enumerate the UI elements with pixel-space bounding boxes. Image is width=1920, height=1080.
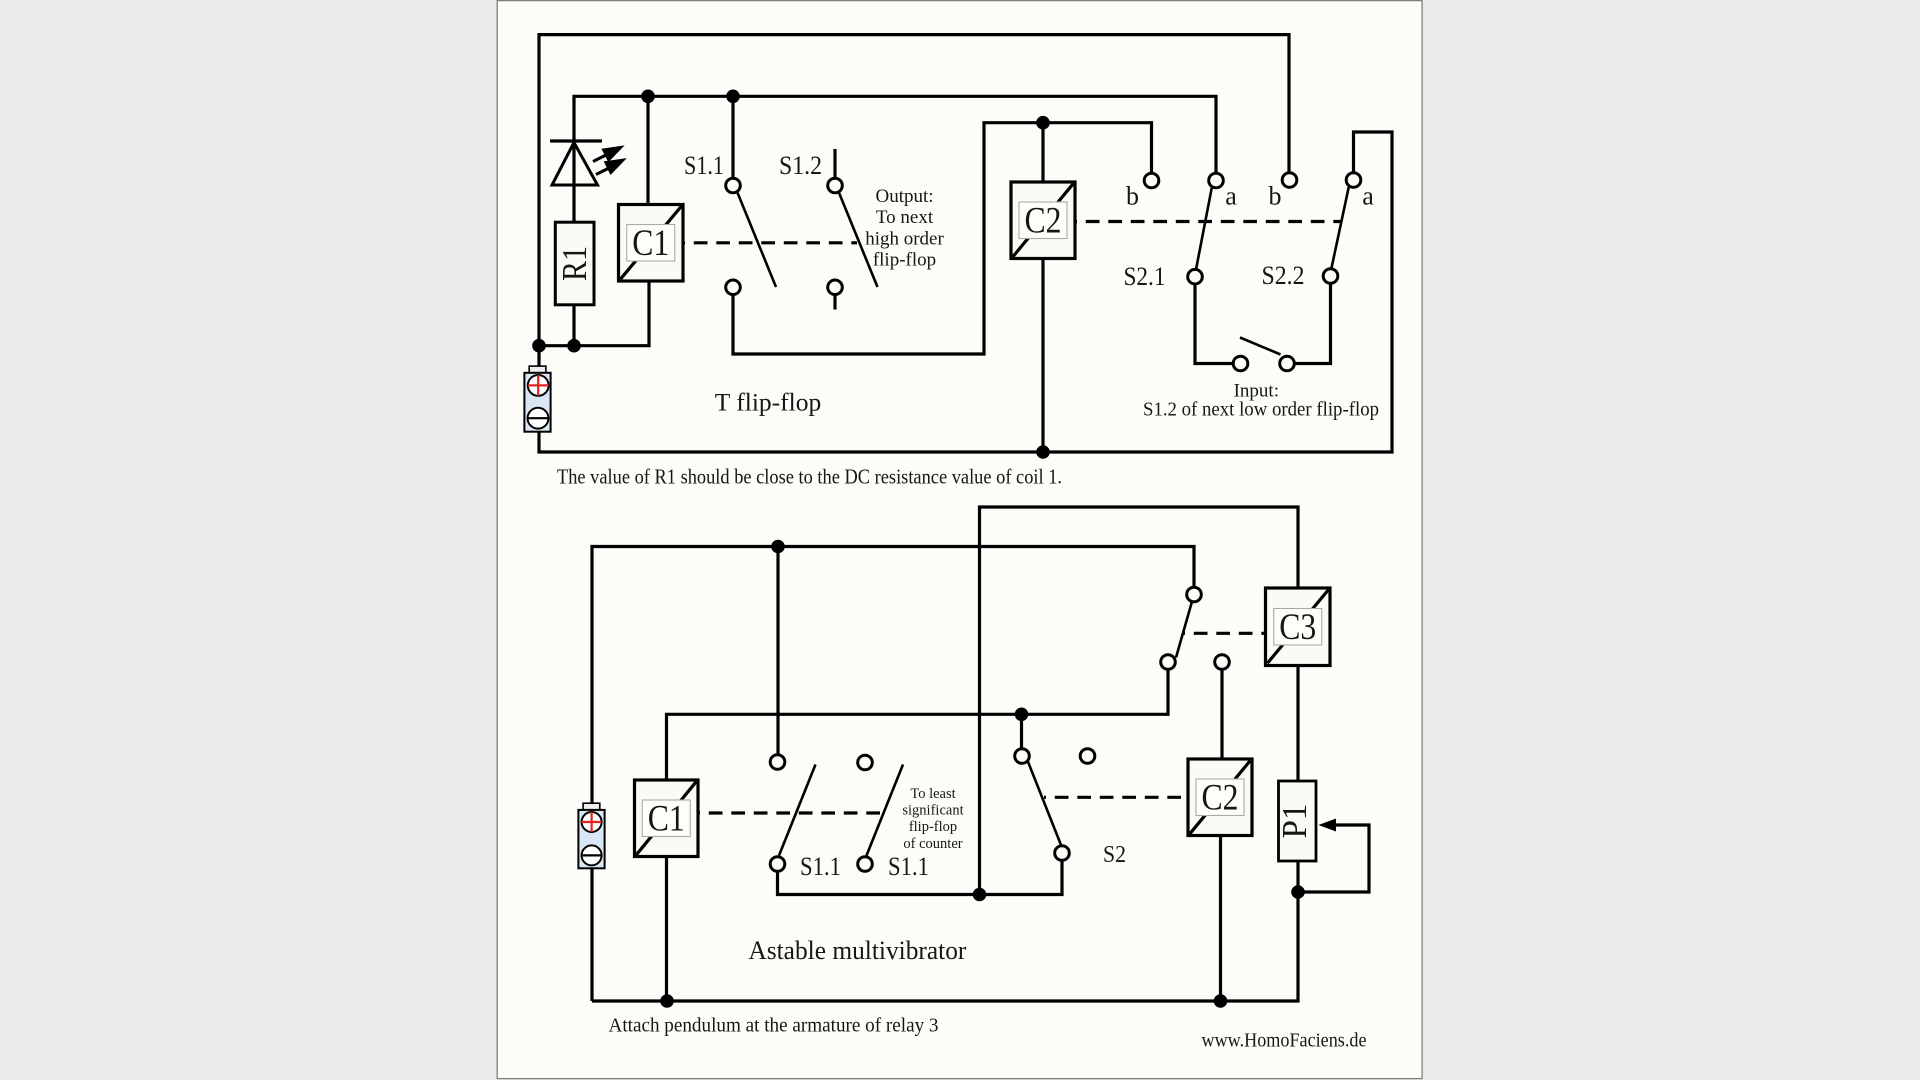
- svg-text:S2: S2: [1103, 842, 1126, 868]
- svg-text:C1: C1: [648, 798, 685, 839]
- svg-text:R1: R1: [555, 246, 594, 281]
- svg-text:flip-flop: flip-flop: [909, 819, 957, 835]
- svg-text:a: a: [1225, 182, 1237, 211]
- svg-text:significant: significant: [902, 803, 963, 819]
- svg-text:S2.1: S2.1: [1124, 262, 1166, 291]
- svg-text:Astable multivibrator: Astable multivibrator: [748, 936, 966, 965]
- svg-text:a: a: [1362, 182, 1374, 211]
- svg-text:high order: high order: [865, 229, 944, 250]
- svg-text:Output:: Output:: [875, 186, 933, 207]
- svg-text:b: b: [1126, 182, 1139, 211]
- svg-text:S2.2: S2.2: [1262, 261, 1305, 290]
- svg-text:S1.1: S1.1: [800, 852, 841, 881]
- svg-text:P1: P1: [1275, 804, 1314, 839]
- svg-text:C2: C2: [1202, 777, 1239, 818]
- svg-text:b: b: [1269, 182, 1282, 211]
- svg-text:To least: To least: [910, 786, 955, 802]
- svg-text:To next: To next: [876, 207, 934, 228]
- svg-text:The value of R1 should be clos: The value of R1 should be close to the D…: [557, 465, 1062, 489]
- svg-text:S1.1: S1.1: [888, 852, 929, 881]
- svg-text:S1.1: S1.1: [684, 151, 724, 180]
- svg-text:of counter: of counter: [903, 836, 962, 852]
- svg-text:C3: C3: [1279, 607, 1316, 648]
- svg-text:C2: C2: [1025, 200, 1062, 241]
- svg-text:S1.2 of next low order flip-fl: S1.2 of next low order flip-flop: [1143, 399, 1379, 421]
- svg-text:Attach pendulum at the armatur: Attach pendulum at the armature of relay…: [609, 1015, 939, 1037]
- svg-text:S1.2: S1.2: [779, 151, 822, 180]
- svg-text:www.HomoFaciens.de: www.HomoFaciens.de: [1202, 1030, 1367, 1052]
- svg-text:T flip-flop: T flip-flop: [715, 388, 821, 417]
- svg-text:C1: C1: [632, 223, 669, 264]
- svg-text:flip-flop: flip-flop: [873, 250, 936, 271]
